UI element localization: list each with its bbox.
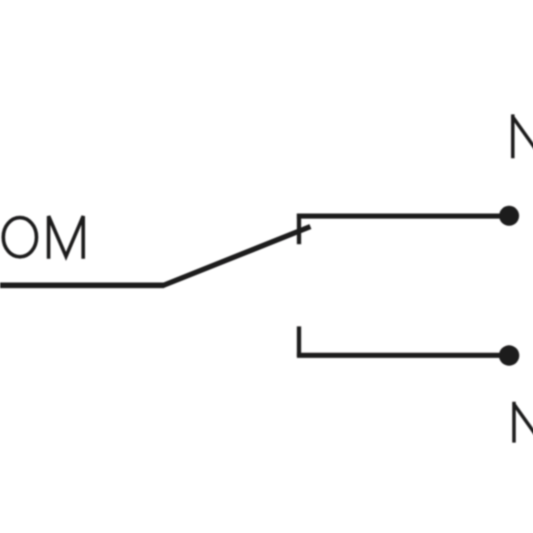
contact stub NO (top terminal, vertical tick) <box>297 214 301 245</box>
net label COM (cropped at left edge, visible "OM"): letter O <box>3 218 36 257</box>
wire NC contact (horizontal to terminal dot) <box>297 353 509 358</box>
net label COM: letter M <box>49 216 84 259</box>
terminal dot NO <box>499 206 519 226</box>
net label NO (cropped at right edge, visible "N"): stem and diagonal <box>512 114 533 158</box>
switch arm (pole, from pivot up to NO contact) <box>152 227 310 286</box>
terminal dot NC <box>499 345 519 365</box>
contact stub NC (bottom terminal, vertical tick) <box>297 326 301 356</box>
net label NC (cropped at right edge, visible "N"): stem and diagonal <box>513 402 533 443</box>
wire NO contact (horizontal to terminal dot) <box>297 214 509 219</box>
wire COM (horizontal from left edge to pivot) <box>0 282 164 288</box>
